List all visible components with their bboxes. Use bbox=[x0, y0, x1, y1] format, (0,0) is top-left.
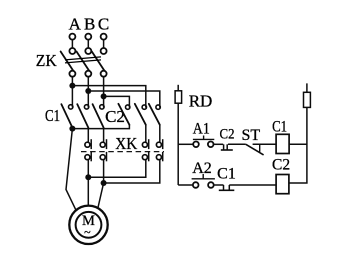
coil C2 bbox=[276, 175, 289, 194]
left control rail bbox=[177, 85, 179, 185]
svg-text:XK: XK bbox=[115, 134, 138, 153]
stop button ST bbox=[246, 144, 264, 155]
wire rail to A1 bbox=[178, 143, 193, 145]
ZK tie bar bbox=[65, 57, 101, 63]
NC contact C2 bbox=[221, 144, 233, 150]
wire ZK B down bbox=[87, 77, 89, 91]
wire C terminal to ZK bbox=[103, 40, 105, 49]
node junction U bbox=[85, 174, 91, 180]
wire B terminal to ZK bbox=[87, 40, 89, 49]
svg-text:ZK: ZK bbox=[36, 51, 58, 70]
changeover switch XK pole 4 bbox=[156, 139, 162, 161]
coil C1 bbox=[276, 134, 289, 153]
changeover switch XK pole 3 bbox=[142, 139, 148, 161]
wire coil C1 to rail bbox=[289, 143, 307, 145]
wire C2 pole1 to node A out bbox=[72, 125, 129, 129]
svg-text:C1: C1 bbox=[272, 119, 287, 136]
motor M inner circle bbox=[76, 212, 102, 238]
wire A terminal to ZK bbox=[71, 40, 73, 49]
wire C1 NC to coil C2 bbox=[229, 184, 276, 186]
contactor C2 main contact pole 3 bbox=[149, 104, 161, 125]
svg-text:A2: A2 bbox=[192, 160, 212, 177]
wire motor lead left bbox=[66, 129, 76, 210]
wire motor lead right bbox=[98, 183, 104, 208]
wire C2 NC to ST bbox=[228, 143, 246, 145]
wire C1 poleC down to XK pole2 bbox=[103, 128, 105, 143]
contactor C2 main contact pole 1 bbox=[118, 104, 129, 125]
node junction B feed bbox=[85, 88, 91, 94]
knife switch ZK pole A bbox=[61, 48, 76, 77]
wire ZK C down bbox=[103, 77, 105, 97]
svg-text:RD: RD bbox=[189, 91, 213, 110]
fuse RD left bbox=[175, 91, 182, 103]
fuse right bbox=[304, 92, 311, 107]
node junction A feed bbox=[69, 83, 75, 89]
svg-text:ST: ST bbox=[241, 127, 260, 144]
contactor C1 main contact pole C bbox=[93, 96, 105, 127]
svg-text:C: C bbox=[98, 14, 109, 33]
node junction A out bbox=[69, 126, 75, 132]
wire C2 pole2 down to XK pole3 bbox=[145, 125, 147, 143]
svg-text:C1: C1 bbox=[217, 165, 236, 182]
node junction V bbox=[101, 180, 107, 186]
XK linkage dashed line bbox=[81, 151, 164, 153]
svg-text:A1: A1 bbox=[193, 120, 210, 137]
contactor C1 main contact pole B bbox=[77, 91, 89, 128]
svg-text:A: A bbox=[69, 14, 82, 33]
knife switch ZK pole B bbox=[77, 48, 92, 77]
wire XK pole2 down to node V bbox=[103, 160, 105, 184]
wire motor lead middle bbox=[87, 177, 89, 206]
wire A2 to C1 NC bbox=[214, 184, 224, 186]
motor M outer circle bbox=[69, 206, 107, 244]
pushbutton A1 bbox=[193, 136, 214, 148]
wire XK pole1 down to node U bbox=[87, 160, 89, 178]
svg-text:C2: C2 bbox=[220, 126, 235, 142]
wire C1 poleB down to XK pole1 bbox=[87, 128, 89, 143]
svg-text:C2: C2 bbox=[272, 157, 290, 174]
node junction C feed bbox=[101, 93, 107, 99]
wire A to C2 pole2 bbox=[72, 86, 145, 108]
contactor C1 main contact pole A bbox=[61, 86, 73, 128]
terminal B bbox=[85, 34, 91, 40]
wire rail to A2 bbox=[178, 184, 193, 186]
wire B to C2 pole3 bbox=[88, 91, 160, 108]
svg-text:~: ~ bbox=[84, 225, 91, 239]
svg-text:B: B bbox=[84, 14, 95, 33]
wire A1 to C2 NC bbox=[213, 143, 223, 145]
wire XK pole4 to node V bbox=[104, 160, 160, 184]
changeover switch XK pole 2 bbox=[100, 139, 106, 161]
wire ZK A down bbox=[71, 77, 73, 86]
svg-text:C1: C1 bbox=[45, 106, 60, 125]
knife switch ZK pole C bbox=[92, 48, 107, 77]
contactor C2 main contact pole 2 bbox=[135, 104, 147, 125]
wire C2 pole3 down to XK pole4 bbox=[159, 125, 161, 143]
changeover switch XK pole 1 bbox=[85, 139, 91, 161]
pushbutton A2 bbox=[192, 174, 215, 188]
wire C to C2 pole1 bbox=[104, 96, 130, 107]
NC contact C1 bbox=[219, 185, 235, 190]
wire ST to coil C1 bbox=[253, 143, 277, 145]
terminal A bbox=[69, 34, 75, 40]
right control rail bbox=[289, 83, 307, 183]
terminal C bbox=[101, 34, 107, 40]
wire XK pole3 to node U bbox=[88, 160, 146, 178]
